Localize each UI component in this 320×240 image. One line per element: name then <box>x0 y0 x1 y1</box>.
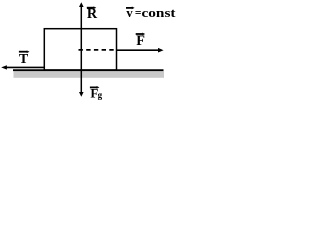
svg-text:g: g <box>98 90 103 100</box>
vector R arrowhead (up) <box>79 2 84 7</box>
ground surface (gray strip) <box>14 71 165 78</box>
vector Fg arrowhead (down) <box>79 92 84 97</box>
svg-text:v: v <box>126 6 133 20</box>
dashed line of action of F inside block <box>79 49 117 51</box>
vector F shaft <box>117 49 162 51</box>
svg-text:F: F <box>136 33 145 49</box>
svg-text:=: = <box>135 8 142 20</box>
label F with vector bar <box>136 33 146 50</box>
label v = const with vector bar over v <box>126 6 176 20</box>
vector T shaft <box>4 66 45 68</box>
svg-text:R: R <box>87 6 98 22</box>
vector F arrowhead (right) <box>158 48 164 53</box>
ground line <box>13 69 164 71</box>
vector T arrowhead (left) <box>1 65 7 69</box>
label Fg with vector bar and subscript g <box>90 85 103 100</box>
label R with vector bar <box>87 6 98 22</box>
label T with vector bar <box>19 50 30 67</box>
svg-text:const: const <box>142 6 177 20</box>
wire: vertical action line through block center <box>80 6 82 94</box>
block (body) <box>44 29 116 70</box>
svg-text:T: T <box>19 52 29 67</box>
